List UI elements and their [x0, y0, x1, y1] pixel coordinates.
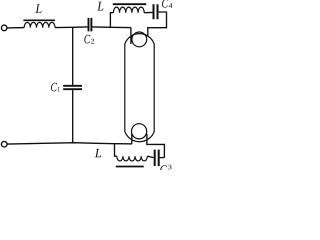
wire stub down to L3 — [115, 144, 117, 157]
label C1s — [58, 87, 60, 92]
label L1 — [35, 4, 41, 13]
wire L3 to C3 — [147, 156, 153, 157]
wire C2 to node — [92, 26, 131, 29]
wire lamp top-left pin — [130, 28, 132, 44]
wire stub up to L2 — [110, 13, 113, 28]
label L3 — [95, 149, 102, 157]
inductor L2 core bar — [113, 3, 147, 5]
wire C4 to lamp right pin — [148, 12, 167, 36]
inductor L1 coil — [24, 22, 55, 27]
capacitor C4 — [154, 4, 158, 19]
label C3C — [160, 165, 167, 173]
wire C3 to lamp loop — [160, 157, 165, 159]
wire C1 to bottom rail — [72, 90, 74, 143]
wire bottom rail — [7, 143, 132, 144]
label C2C — [84, 35, 90, 44]
input terminal top — [1, 25, 7, 31]
lamp top filament electrode — [132, 32, 147, 47]
inductor L2 coil — [113, 7, 144, 13]
label C4s — [169, 3, 173, 8]
label L2 — [97, 2, 103, 11]
wire C1 branch — [72, 27, 74, 85]
label C4C — [162, 0, 168, 8]
input terminal bottom — [1, 141, 7, 147]
capacitor C2 — [89, 18, 92, 32]
lamp tube envelope — [125, 34, 154, 142]
inductor L3 core bar — [116, 166, 144, 168]
wire lamp bottom-right pin — [147, 134, 165, 158]
wire top rail left — [7, 27, 24, 29]
wire L2 to C4 — [144, 11, 152, 13]
capacitor C3 — [155, 150, 159, 166]
label C2s — [91, 39, 94, 44]
capacitor C1 — [63, 86, 82, 89]
lamp bottom filament electrode — [132, 124, 147, 139]
inductor L1 core bar — [23, 19, 55, 21]
wire lamp bottom-left pin — [131, 134, 133, 144]
label C1C — [51, 83, 57, 92]
wire to C2 — [55, 26, 88, 29]
inductor L3 coil — [117, 156, 148, 161]
label C3s — [168, 165, 171, 170]
